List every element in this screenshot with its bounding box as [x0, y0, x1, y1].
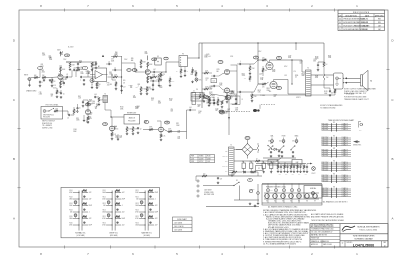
tube label V1A [65, 54, 70, 57]
PI loop wire [230, 65, 237, 104]
bottom zone numbers [40, 246, 358, 257]
svg-text:330K: 330K [204, 56, 207, 58]
svg-text:REV: REV [383, 242, 386, 244]
svg-text:56K: 56K [209, 94, 211, 96]
box link wire [278, 162, 292, 166]
svg-text:220K: 220K [267, 90, 270, 92]
svg-text:PIN2 215V: PIN2 215V [322, 164, 329, 166]
socket chart group V5 [322, 173, 352, 183]
svg-text:TUBE SOCKET VOLTAGE CHART: TUBE SOCKET VOLTAGE CHART [328, 119, 354, 122]
svg-text:R111: R111 [103, 190, 106, 192]
mid cap C6 [83, 79, 86, 85]
screen resistor R24 [258, 82, 269, 89]
rectifier label [245, 137, 250, 140]
svg-text:25/25: 25/25 [53, 87, 57, 89]
svg-text:GRN/YEL: GRN/YEL [222, 166, 228, 168]
relay box K1 [268, 160, 278, 166]
svg-text:.68: .68 [123, 82, 125, 84]
svg-text:320V: 320V [57, 50, 61, 52]
svg-text:.022: .022 [59, 67, 62, 69]
bias pot VR2 [271, 140, 274, 144]
trem intensity wire [228, 100, 230, 135]
svg-text:S2: S2 [258, 168, 260, 170]
svg-text:PIN3 215V: PIN3 215V [322, 153, 329, 155]
HV secondary wire [234, 149, 242, 151]
svg-text:100K: 100K [224, 113, 227, 115]
svg-text:.022: .022 [119, 137, 122, 139]
component value annotations [39, 52, 332, 140]
power tube V5 [269, 81, 277, 93]
grid stopper resistor R1 [31, 75, 40, 79]
screen resistor R23 [258, 57, 269, 62]
trem plate cap C57 [235, 96, 238, 105]
svg-text:B: B [391, 157, 393, 161]
svg-text:SLIDER: SLIDER [146, 87, 151, 89]
svg-text:R121: R121 [135, 190, 138, 192]
cap C50 [95, 63, 98, 70]
main filter cap C22 [242, 161, 245, 173]
PI bottom label box [191, 93, 203, 102]
vibrato LDR bug [253, 109, 260, 112]
heater dropper group 2 [283, 164, 289, 176]
stage text x150 [128, 85, 151, 91]
svg-text:330K: 330K [142, 62, 146, 64]
switch bus wire [263, 157, 296, 159]
svg-text:10K: 10K [177, 132, 179, 134]
svg-text:.001: .001 [115, 54, 118, 56]
speaker jack box [334, 73, 344, 89]
LDR dashed wire [260, 105, 276, 109]
label 210V [124, 59, 127, 61]
svg-text:100K: 100K [71, 65, 75, 67]
svg-text:100K: 100K [211, 97, 214, 99]
svg-text:V4: V4 [290, 201, 292, 203]
level pot VR1 [195, 78, 201, 82]
tube label V6A [165, 121, 170, 124]
filter cap C13 [317, 62, 324, 71]
svg-text:470: 470 [262, 57, 265, 59]
svg-text:.02: .02 [108, 61, 110, 63]
filament winding V4 [290, 184, 293, 204]
PI input cap C10 [187, 107, 197, 111]
svg-text:V3: V3 [282, 201, 284, 203]
tube heater V4 [289, 194, 294, 203]
bias label [259, 74, 263, 76]
svg-text:PIN3 215V: PIN3 215V [322, 141, 329, 143]
socket chart preamble [320, 104, 342, 109]
svg-text:1.5K: 1.5K [169, 100, 172, 102]
filament winding V5 [297, 184, 300, 204]
trem resistor R39 [203, 92, 206, 102]
chassis bus wire [206, 206, 259, 208]
svg-text:.022: .022 [151, 99, 154, 101]
mid band resistor R52 [150, 74, 159, 78]
trem wire to oscillator [196, 94, 226, 97]
svg-text:470K: 470K [149, 127, 152, 129]
svg-text:1.5K: 1.5K [96, 83, 99, 85]
svg-text:10K: 10K [103, 205, 106, 207]
svg-text:PIN4 215V: PIN4 215V [322, 194, 329, 196]
trans label text [260, 94, 301, 99]
svg-text:LO47/L/5000: LO47/L/5000 [353, 243, 374, 247]
svg-text:15K: 15K [292, 141, 294, 143]
svg-text:.02: .02 [66, 74, 68, 76]
PI bottom ellipse [206, 97, 210, 100]
trem depth resistor R54 [217, 97, 223, 106]
B+ first rail wire [234, 160, 277, 162]
plate resistor R4P [60, 52, 66, 74]
svg-text:SEE NOTE 6: SEE NOTE 6 [353, 145, 361, 147]
svg-text:100: 100 [279, 141, 281, 143]
filament bottom wire [262, 202, 322, 204]
svg-text:250K: 250K [144, 53, 147, 55]
chassis ground label [26, 90, 37, 93]
bus wire y62 [66, 61, 96, 63]
svg-text:K3: K3 [157, 56, 159, 58]
tube label V2B [86, 103, 91, 106]
svg-text:PIN3 215V: PIN3 215V [322, 192, 329, 194]
control strip NORMAL VOL [69, 190, 92, 237]
svg-text:25: 25 [79, 108, 81, 110]
grid series resistor R2 [42, 75, 48, 79]
mixer bus vertical wire [121, 56, 123, 94]
svg-text:.02: .02 [205, 79, 207, 81]
mix bus vertical wire [186, 110, 188, 139]
left vertical resistors with ground B [146, 86, 152, 95]
grid wire lower [248, 84, 262, 92]
feedback resistor R26 [250, 89, 336, 95]
svg-text:V3: V3 [255, 57, 257, 59]
svg-text:T1: T1 [230, 145, 232, 147]
tube heater V5 [297, 194, 302, 203]
electrolytic cap C17 [76, 104, 80, 113]
svg-text:47K: 47K [96, 106, 98, 108]
svg-text:.022: .022 [299, 63, 302, 65]
reverb drive wire down [105, 103, 111, 118]
svg-text:.022: .022 [89, 218, 92, 220]
cathode resistor R12K [147, 75, 152, 80]
grid leak resistor R3 [51, 78, 55, 88]
svg-text:100K: 100K [149, 64, 153, 66]
ground under C2 [69, 67, 80, 71]
trem resistor R38 [199, 92, 204, 99]
footswitch switch S3 [49, 108, 54, 111]
svg-text:820: 820 [123, 80, 126, 82]
svg-text:220K: 220K [133, 97, 136, 99]
svg-text:500P: 500P [301, 75, 304, 77]
svg-text:DESCRIPTION: DESCRIPTION [345, 15, 357, 17]
svg-text:AND MEET FENDER SPECIFICATIONS: AND MEET FENDER SPECIFICATIONS [311, 215, 344, 218]
svg-text:.022: .022 [122, 212, 125, 214]
svg-text:RED/YEL: RED/YEL [222, 156, 227, 158]
osc cap C54 [213, 97, 216, 104]
plug arrows [343, 77, 347, 83]
bus branch cap C7 [112, 67, 122, 71]
filament winding V2 [274, 184, 277, 204]
footswitch caption [42, 121, 55, 130]
P1 load resistor R60 [176, 67, 182, 78]
svg-text:100: 100 [298, 174, 300, 176]
svg-text:25/25: 25/25 [242, 75, 246, 77]
tube heater V7 [313, 194, 318, 203]
svg-text:56K: 56K [170, 111, 172, 113]
tube label V4 [277, 57, 282, 60]
svg-text:250P: 250P [89, 205, 92, 207]
bias tap switch S4 [268, 143, 272, 149]
PI coupling cap C12 [237, 91, 248, 97]
svg-text:220K: 220K [202, 101, 205, 103]
filament winding V3 [282, 184, 285, 204]
svg-text:PIN4 215V: PIN4 215V [322, 155, 329, 157]
svg-text:470K: 470K [102, 218, 105, 220]
bypass cap C59 [152, 83, 155, 91]
vibrato dashed wire [226, 111, 251, 113]
svg-text:6-30-80: 6-30-80 [362, 22, 368, 24]
svg-text:R101: R101 [69, 190, 72, 192]
svg-text:.01: .01 [193, 91, 195, 93]
trem resistor R58 [202, 97, 210, 107]
svg-text:500P: 500P [89, 225, 92, 227]
svg-text:SLEEVE = GRD: SLEEVE = GRD [42, 127, 52, 129]
svg-text:R123: R123 [135, 203, 138, 205]
svg-text:PIN3 215V: PIN3 215V [322, 166, 329, 168]
ground row [43, 79, 52, 81]
PI tail resistor R19 [226, 93, 231, 103]
svg-text:.047: .047 [89, 199, 92, 201]
bridge rectifier D1-D4 [242, 144, 253, 156]
svg-text:20: 20 [63, 94, 65, 96]
svg-text:250K: 250K [69, 205, 72, 207]
svg-text:470K: 470K [230, 56, 233, 58]
wire to PI input [161, 62, 179, 72]
stage value text V1B [96, 83, 100, 87]
coupling cap C9 [150, 69, 161, 73]
socket chart group V2 [322, 135, 352, 147]
svg-text:THIS IS THE ONLY AUTHORIZED SC: THIS IS THE ONLY AUTHORIZED SCHEM. [311, 219, 345, 222]
reverb tank wire in [111, 117, 125, 118]
svg-text:V3: V3 [333, 148, 335, 150]
svg-text:BLK WHT GRN: BLK WHT GRN [204, 194, 214, 196]
treble cap C4 [72, 68, 77, 77]
svg-text:10K: 10K [130, 87, 132, 89]
buffer amp A1 [90, 65, 108, 79]
trem value texts [196, 89, 243, 101]
svg-text:7: 7 [166, 58, 167, 60]
plate supply stub [295, 43, 297, 50]
svg-text:10K: 10K [213, 81, 215, 83]
jack ground [28, 80, 31, 86]
svg-text:A: A [13, 216, 15, 220]
svg-text:.001: .001 [189, 107, 192, 109]
socket chart group V4 [322, 160, 352, 172]
svg-text:PIN2 215V: PIN2 215V [322, 125, 329, 127]
OT secondary wire upper [311, 74, 334, 76]
svg-text:T3: T3 [104, 93, 106, 95]
svg-text:CH: CH [326, 77, 328, 79]
cap C26 [281, 151, 284, 157]
svg-text:TRANSFORMER CHART 031-77: TRANSFORMER CHART 031-77 [344, 98, 369, 101]
svg-text:470K: 470K [171, 81, 174, 83]
pilot lamp PL1 [312, 167, 316, 175]
svg-text:T2: T2 [307, 68, 309, 70]
svg-text:250K: 250K [76, 119, 79, 121]
PI coupling cap C30 [211, 75, 219, 77]
triode V6B [226, 95, 231, 100]
svg-text:500P: 500P [122, 218, 125, 220]
general notes list [263, 209, 317, 245]
svg-text:CHK R.B.: CHK R.B. [323, 241, 330, 243]
speaker cable wires [347, 78, 361, 82]
line filter parts [232, 171, 253, 177]
wire to V3B grid [219, 86, 224, 91]
svg-text:V2: V2 [274, 201, 276, 203]
svg-text:120V: 120V [191, 158, 194, 160]
AC wire mid [203, 185, 234, 187]
fuse F1 [248, 179, 253, 193]
svg-text:470K: 470K [69, 225, 72, 227]
svg-text:250K: 250K [91, 65, 94, 67]
tube heater V6 [305, 194, 310, 203]
standby switch S2 [277, 158, 281, 165]
small relay box K3 [155, 56, 161, 65]
svg-text:1M: 1M [53, 81, 55, 83]
svg-text:220K: 220K [128, 129, 132, 131]
OT primary wire upper [270, 60, 306, 72]
svg-text:PIN2 215V: PIN2 215V [322, 139, 329, 141]
tube label V5 [277, 87, 282, 90]
svg-text:250P: 250P [122, 199, 125, 201]
svg-text:9-12-80: 9-12-80 [362, 25, 368, 27]
buffer amp A1 box [93, 68, 107, 82]
heater secondary winding [257, 143, 259, 153]
heater feed wire [256, 163, 306, 165]
top zone numbers [40, 4, 358, 11]
svg-text:6.3V: 6.3V [270, 190, 273, 192]
svg-text:GRN: GRN [225, 161, 228, 163]
svg-text:470K: 470K [102, 225, 105, 227]
svg-text:.02: .02 [152, 83, 154, 85]
trem cap C56 [211, 102, 217, 107]
V2B plate resistor R56 [87, 100, 92, 107]
bass cap C5 [80, 76, 83, 82]
cathode bypass cap R4C [61, 81, 66, 85]
svg-text:100: 100 [203, 173, 206, 175]
bias diode D5 [272, 148, 280, 151]
svg-text:PIN1 215V: PIN1 215V [322, 123, 329, 125]
filter cap C14 [324, 80, 331, 96]
svg-text:220K: 220K [115, 137, 118, 139]
svg-text:R122: R122 [135, 197, 138, 199]
svg-text:25/25: 25/25 [42, 72, 46, 74]
chassis ground symbol [249, 203, 257, 207]
mid band vertical R53 [158, 77, 161, 87]
bias pot wire stubs [272, 138, 297, 140]
filter cap C15 [60, 90, 65, 98]
bias feed resistor R25 [262, 66, 267, 76]
svg-text:500P: 500P [155, 212, 158, 214]
reverb return cap C19 [137, 127, 142, 134]
triode V2A [145, 69, 150, 74]
OT secondary wire lower [311, 84, 334, 86]
svg-text:470K: 470K [135, 218, 138, 220]
svg-text:47K: 47K [244, 78, 246, 80]
left vertical resistors with ground A [140, 86, 146, 95]
svg-text:022871: 022871 [296, 97, 301, 99]
buffer bias resistor R8 [96, 82, 101, 89]
hum balance box [304, 186, 322, 199]
svg-text:120V 60HZ: 120V 60HZ [204, 190, 212, 192]
volume pot R7 [90, 79, 94, 89]
svg-text:V6: V6 [306, 201, 308, 203]
svg-text:470: 470 [294, 71, 296, 73]
socket chart heading [328, 119, 354, 122]
wire P1 to rail [188, 43, 200, 58]
svg-text:R E V I S I O N S: R E V I S I O N S [353, 12, 370, 14]
svg-text:470: 470 [262, 87, 265, 89]
cap C27 [292, 151, 295, 157]
heater text [280, 164, 296, 167]
line resistor R42 [202, 173, 207, 177]
bias pot label row [271, 135, 299, 138]
socket chart group V6 [322, 186, 352, 198]
svg-text:.047: .047 [122, 192, 125, 194]
svg-text:V4: V4 [333, 160, 335, 162]
svg-text:10K: 10K [136, 199, 139, 201]
svg-text:68K: 68K [110, 84, 112, 86]
grid wire upper [248, 60, 258, 64]
footswitch box outline [41, 104, 63, 119]
svg-text:210V: 210V [124, 59, 127, 61]
svg-text:.05: .05 [186, 71, 188, 73]
line voltage text [204, 190, 214, 197]
PI coupling cap C31 [211, 85, 219, 87]
svg-text:.001: .001 [208, 56, 211, 58]
svg-text:470K: 470K [69, 192, 72, 194]
grid resistor R22 [251, 92, 257, 102]
PI cathode junction [226, 75, 229, 96]
svg-text:.047: .047 [153, 69, 156, 71]
svg-text:PILOT: PILOT [312, 173, 316, 175]
PI supply feed wire [201, 43, 203, 108]
control panel outline box [61, 187, 159, 237]
filament caption [268, 206, 297, 209]
svg-text:D1-4: D1-4 [246, 138, 249, 140]
reverb return resistor R33 [126, 126, 132, 135]
trem cap ladder C20 [192, 91, 196, 105]
svg-text:100: 100 [305, 174, 307, 176]
svg-text:100: 100 [292, 174, 294, 176]
reverb drive cap C18 [94, 94, 99, 98]
footswitch resistor R29 [54, 108, 63, 112]
svg-text:68K: 68K [60, 54, 62, 56]
svg-text:MUSICAL INSTRUMENTS: MUSICAL INSTRUMENTS [358, 225, 381, 228]
svg-text:.047: .047 [123, 87, 126, 89]
svg-text:R126: R126 [135, 223, 138, 225]
level chain ground [191, 81, 194, 83]
svg-text:B+ 325V: B+ 325V [68, 47, 73, 49]
svg-text:PIN2 215V: PIN2 215V [322, 190, 329, 192]
svg-text:PIN4 215V: PIN4 215V [322, 143, 329, 145]
screen node wire [258, 43, 259, 84]
svg-text:R116: R116 [103, 223, 106, 225]
svg-text:.022: .022 [89, 192, 92, 194]
mix resistor R37 [164, 129, 187, 133]
svg-text:470K: 470K [272, 71, 275, 73]
standby dropping resistor R27 [323, 62, 327, 70]
svg-text:820: 820 [225, 98, 227, 100]
svg-text:.022: .022 [122, 225, 125, 227]
extra node dot1 [96, 62, 97, 63]
